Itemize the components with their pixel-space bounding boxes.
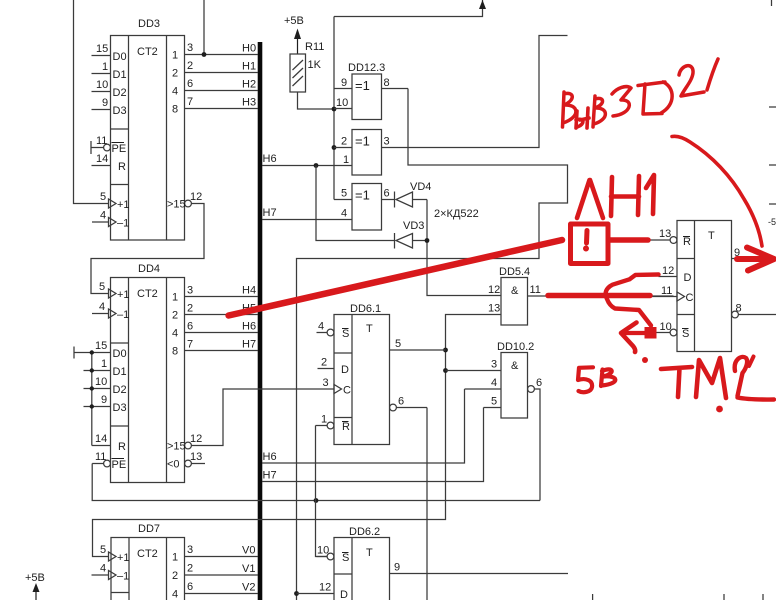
svg-text:10: 10 [96, 79, 108, 91]
svg-text:D: D [341, 364, 349, 376]
svg-text:4: 4 [341, 208, 347, 220]
label DD6.2 [349, 526, 380, 538]
svg-text:1: 1 [343, 154, 349, 166]
svg-text:6: 6 [384, 188, 390, 200]
svg-text:V0: V0 [242, 545, 255, 557]
node H3 label [242, 97, 256, 109]
arrowhead at top edge [479, 0, 486, 9]
svg-text:R: R [683, 236, 691, 248]
svg-text:5: 5 [395, 338, 401, 350]
svg-text:4: 4 [100, 563, 106, 575]
svg-text:1K: 1K [308, 59, 322, 71]
junction DD10.2 pin3 [443, 368, 448, 373]
label DD6.1 [350, 303, 381, 315]
svg-text:3: 3 [323, 377, 329, 389]
svg-text:+1: +1 [117, 199, 130, 211]
wire: DD6.1 R and DD6.2 S shared vertical [316, 426, 328, 557]
svg-text:6: 6 [536, 377, 542, 389]
svg-text:D1: D1 [113, 69, 127, 81]
svg-text:H7: H7 [242, 339, 256, 351]
wire: gate2 output 3 up to top stub [382, 36, 568, 148]
red diagonal marker line [229, 240, 562, 316]
red text TM2 [661, 367, 692, 397]
svg-text:6: 6 [187, 581, 193, 593]
svg-text:D2: D2 [113, 87, 127, 99]
svg-text:DD5.4: DD5.4 [499, 266, 530, 278]
wire: H6 lower row to DD10.2 pin4 [262, 389, 465, 463]
svg-text:14: 14 [96, 153, 108, 165]
svg-text:DD6.2: DD6.2 [349, 526, 380, 538]
red curve to arrow [672, 136, 762, 246]
svg-text:1: 1 [102, 61, 108, 73]
label 2xKD522 [434, 208, 479, 220]
junction DD6.1 out5 [443, 348, 448, 353]
svg-text:H0: H0 [242, 43, 256, 55]
junction at DD6.2 D row [294, 591, 299, 596]
svg-text:>15: >15 [167, 199, 186, 211]
svg-text:DD10.2: DD10.2 [497, 341, 534, 353]
svg-text:R11: R11 [305, 41, 324, 53]
svg-text:–1: –1 [117, 218, 129, 230]
wire: gate1 output 8 routed to DD6.2 D input (long net) [297, 89, 568, 600]
svg-text:T: T [366, 547, 373, 559]
svg-text:3: 3 [384, 136, 390, 148]
counter DD3 [91, 36, 258, 241]
node H6 label (DD4 row) [242, 321, 256, 333]
node H2 label [242, 79, 256, 91]
svg-text:<0: <0 [167, 459, 180, 471]
svg-text:&: & [511, 285, 519, 297]
svg-text:C: C [686, 292, 694, 304]
svg-text:=1: =1 [355, 134, 370, 149]
junction diodes [425, 238, 430, 243]
wire: DD4 >15 output to DD6.1 C input [191, 389, 333, 446]
svg-text:15: 15 [95, 340, 107, 352]
svg-text:4: 4 [172, 328, 178, 340]
node H0 label [242, 43, 256, 55]
svg-text:4: 4 [491, 377, 497, 389]
svg-text:&: & [511, 360, 519, 372]
svg-text:>15: >15 [167, 441, 186, 453]
svg-text:D: D [340, 589, 348, 600]
flip-flop DD6.2 [297, 538, 569, 600]
svg-text:H4: H4 [242, 285, 256, 297]
svg-text:VD3: VD3 [403, 220, 424, 232]
svg-text:S: S [682, 328, 689, 340]
svg-text:3: 3 [491, 359, 497, 371]
svg-text:2: 2 [341, 136, 347, 148]
svg-text:9: 9 [101, 394, 107, 406]
svg-text:–1: –1 [117, 571, 129, 583]
counter DD4 [74, 278, 258, 483]
svg-text:6: 6 [398, 396, 404, 408]
diode VD3 [395, 233, 428, 249]
wire: DD5.4 pin13 net down to DD7 +1 [93, 315, 502, 557]
svg-text:13: 13 [488, 303, 500, 315]
node H7 label (lower row) [263, 470, 277, 482]
svg-text:R: R [118, 161, 126, 173]
svg-text:7: 7 [187, 96, 193, 108]
svg-text:2: 2 [187, 60, 193, 72]
svg-text:11: 11 [95, 451, 106, 463]
bottom edge wire stubs [593, 594, 763, 600]
svg-text:6: 6 [187, 321, 193, 333]
svg-text:1: 1 [101, 358, 107, 370]
svg-text:13: 13 [190, 451, 202, 463]
svg-text:DD4: DD4 [138, 263, 160, 275]
svg-text:10: 10 [660, 321, 672, 333]
svg-text:D: D [684, 272, 692, 284]
wire: DD3 >15 output down and left to DD4 +1 input [91, 204, 204, 294]
svg-text:DD6.1: DD6.1 [350, 303, 381, 315]
svg-text:+5B: +5B [25, 572, 45, 584]
flip-flop TM2 (right, annotated) [650, 221, 776, 352]
svg-text:13: 13 [659, 228, 671, 240]
red connector square to pin13 [611, 237, 649, 243]
node H5 label [242, 303, 256, 315]
AND gate DD5.4 [501, 278, 674, 326]
svg-text:1: 1 [172, 50, 178, 62]
svg-text:2: 2 [187, 563, 193, 575]
junction on H0 row [202, 52, 207, 57]
XOR gate DD12.3 element 2 [262, 130, 382, 176]
wire: R11 bottom to x=334 vertical [298, 92, 335, 109]
node H4 label [242, 285, 256, 297]
svg-text:1: 1 [321, 414, 327, 426]
svg-text:5: 5 [341, 188, 347, 200]
node H7 label (upper row) [263, 207, 277, 219]
svg-text:S: S [342, 328, 349, 340]
svg-text:CT2: CT2 [137, 288, 158, 300]
svg-text:DD3: DD3 [138, 18, 160, 30]
red arrow at output 9 [737, 256, 766, 262]
svg-text:1: 1 [172, 292, 178, 304]
red dot [642, 357, 648, 363]
label VD3 [403, 220, 424, 232]
junction on PE row feeding DD6.2 S input [314, 498, 319, 503]
RED ANNOTATIONS [229, 59, 774, 412]
node V2 label [242, 582, 255, 594]
svg-text:6: 6 [187, 78, 193, 90]
node V1 label [242, 563, 255, 575]
resistor R11 1K [290, 54, 306, 92]
wire: from top edge into DD3 +1 input [74, 0, 109, 204]
label DD10.2 [497, 341, 534, 353]
power +5B (bottom left) [25, 572, 45, 600]
svg-text:5: 5 [99, 281, 105, 293]
svg-text:S: S [342, 552, 349, 564]
svg-text:7: 7 [187, 339, 193, 351]
svg-text:DD12.3: DD12.3 [348, 62, 385, 74]
svg-text:4: 4 [172, 589, 178, 600]
red text 5V [578, 367, 593, 392]
junction at R11/pin10 [332, 107, 337, 112]
svg-text:D0: D0 [113, 51, 127, 63]
svg-text:C: C [343, 385, 351, 397]
svg-text:CT2: CT2 [137, 548, 158, 560]
svg-text:H1: H1 [242, 61, 256, 73]
svg-text:5: 5 [100, 544, 106, 556]
svg-text:9: 9 [341, 77, 347, 89]
power +5B (top, resistor pull-up) [284, 15, 304, 54]
node V0 label [242, 545, 255, 557]
junction at gate2 pin1 row (H6) [314, 163, 319, 168]
flip-flop DD6.1 [316, 315, 446, 445]
svg-text:+1: +1 [117, 552, 130, 564]
svg-text:9: 9 [394, 562, 400, 574]
svg-text:=1: =1 [355, 78, 370, 93]
right edge clipped label -5 [768, 217, 776, 227]
wire: top horizontal with up arrow at x=482 [334, 0, 483, 17]
label VD4 [410, 181, 431, 193]
label DD12.3 [348, 62, 385, 74]
counter DD7 [92, 538, 259, 600]
svg-text:12: 12 [190, 191, 202, 203]
svg-text:10: 10 [95, 376, 107, 388]
svg-text:5: 5 [491, 396, 497, 408]
svg-text:T: T [366, 323, 373, 335]
svg-text:11: 11 [530, 284, 541, 296]
red left arrow at S pin [624, 331, 645, 335]
svg-text:2: 2 [321, 357, 327, 369]
wire: vertical x=334 feeding gate inputs [333, 17, 335, 200]
svg-text:PE: PE [112, 143, 127, 155]
svg-text:T: T [708, 230, 715, 242]
svg-text:8: 8 [384, 77, 390, 89]
junction at gate2 pin2 [332, 145, 337, 150]
svg-text:DD7: DD7 [138, 523, 160, 535]
svg-text:2: 2 [172, 68, 178, 80]
svg-text:14: 14 [95, 433, 107, 445]
svg-text:4: 4 [99, 301, 105, 313]
svg-text:4: 4 [172, 86, 178, 98]
svg-text:9: 9 [102, 97, 108, 109]
svg-text:2: 2 [187, 303, 193, 315]
svg-text:+1: +1 [117, 289, 130, 301]
svg-text:R: R [342, 421, 350, 433]
svg-text:H3: H3 [242, 97, 256, 109]
node H1 label [242, 61, 256, 73]
label DD5.4 [499, 266, 530, 278]
svg-text:D3: D3 [113, 402, 127, 414]
svg-text:2: 2 [172, 570, 178, 582]
node H7 label (DD4 row) [242, 339, 256, 351]
bus (thick vertical line) [258, 42, 263, 600]
node H6 label (lower row) [263, 451, 277, 463]
svg-text:D2: D2 [113, 384, 127, 396]
svg-text:12: 12 [662, 265, 674, 277]
wire: diodes junction down to DD5.4 pin 12 [427, 200, 501, 296]
svg-text:11: 11 [96, 135, 107, 147]
svg-text:3: 3 [187, 42, 193, 54]
svg-text:10: 10 [317, 545, 329, 557]
svg-text:8: 8 [172, 346, 178, 358]
svg-text:8: 8 [736, 303, 742, 315]
svg-text:V1: V1 [242, 563, 255, 575]
red fork annotation at C/D pins [548, 293, 650, 299]
svg-text:11: 11 [661, 285, 672, 297]
svg-text:–1: –1 [117, 309, 129, 321]
right edge wire stubs [769, 0, 776, 204]
diode VD4 [395, 192, 428, 208]
svg-text:4: 4 [100, 210, 106, 222]
wire: vertical drop from top to H0 row [203, 0, 205, 55]
svg-text:5: 5 [100, 191, 106, 203]
red text LN1 [577, 180, 603, 218]
wire: H7 lower row to DD10.2 pin5 [262, 408, 484, 482]
AND gate DD10.2 [446, 353, 541, 501]
wire: DD4 PE down to long horizontal row y=500 [92, 464, 540, 501]
svg-text:R: R [118, 441, 126, 453]
svg-text:H7: H7 [263, 207, 277, 219]
svg-text:H2: H2 [242, 79, 256, 91]
svg-text:D0: D0 [113, 348, 127, 360]
svg-text:1: 1 [172, 552, 178, 564]
svg-text:+5B: +5B [284, 15, 304, 27]
XOR gate DD12.3 element 1 [334, 74, 408, 120]
svg-text:12: 12 [319, 582, 331, 594]
svg-text:H6: H6 [263, 451, 277, 463]
svg-text:PE: PE [112, 459, 127, 471]
node H6 label (upper row) [263, 153, 277, 165]
svg-text:D1: D1 [113, 366, 127, 378]
red inverter square (LN1 suggestion) [571, 224, 609, 264]
svg-text:2×КД522: 2×КД522 [434, 208, 479, 220]
wire: H6 row junction down to VD3 [316, 166, 395, 241]
red handwriting Vyv 3D2 (top) [563, 92, 576, 127]
svg-text:D3: D3 [113, 105, 127, 117]
svg-text:-5: -5 [768, 217, 776, 227]
svg-text:V2: V2 [242, 582, 255, 594]
svg-text:15: 15 [96, 43, 108, 55]
XOR gate DD12.3 element 3 [262, 184, 395, 231]
svg-text:H6: H6 [242, 321, 256, 333]
wire: DD6.1 out6 down past bottom edge [426, 408, 428, 600]
svg-text:H6: H6 [263, 153, 277, 165]
svg-text:3: 3 [187, 285, 193, 297]
svg-text:CT2: CT2 [137, 46, 158, 58]
svg-text:3: 3 [187, 544, 193, 556]
svg-text:12: 12 [488, 284, 500, 296]
svg-text:2: 2 [172, 310, 178, 322]
svg-text:4: 4 [318, 321, 324, 333]
svg-text:H7: H7 [263, 470, 277, 482]
svg-text:10: 10 [336, 97, 348, 109]
svg-text:8: 8 [172, 104, 178, 116]
svg-text:VD4: VD4 [410, 181, 431, 193]
svg-text:=1: =1 [355, 188, 370, 203]
svg-text:12: 12 [190, 433, 202, 445]
